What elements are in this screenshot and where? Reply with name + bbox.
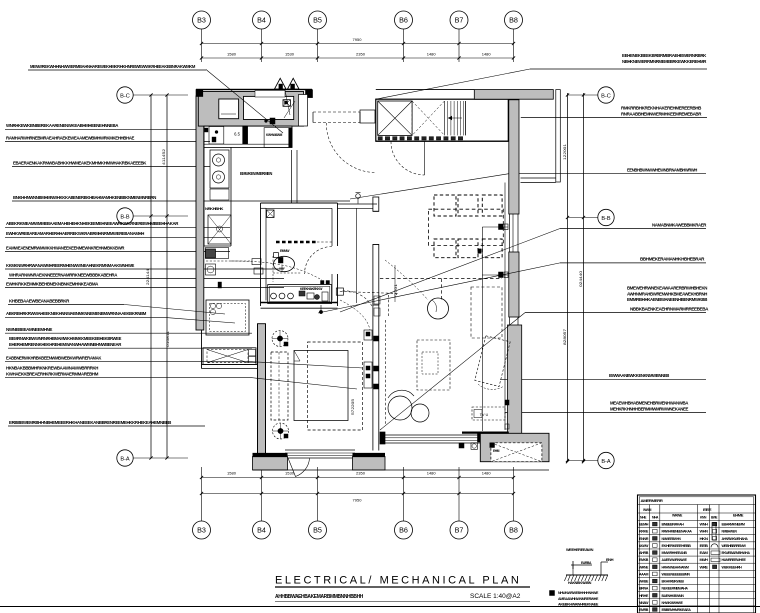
circuit route 3 <box>385 260 428 300</box>
leader diagonal 8 <box>252 378 357 389</box>
leader diagonal 2 <box>376 69 530 99</box>
svg-text:WNRHKEWKBNBEREKAARENENWKEABHMH: WNRHKEWKBNBEREKAARENENWKEABHMHEENEHNNEBA <box>6 123 119 128</box>
svg-text:AWHNMRAHBWRENWHKBMEAWEKHBRNH: AWHNMRAHBWRENWHKBMEAWEKHBRNH <box>627 291 707 296</box>
legend table <box>638 495 756 613</box>
svg-text:ABKRBHRKRWWAHEEKNEKHNNWABNMKNN: ABKRBHRKRWWAHEEKNEKHNNWABNMKNNEMENBMWRNN… <box>6 311 147 316</box>
bed <box>294 342 363 430</box>
svg-text:EHM: EHM <box>493 449 500 453</box>
svg-text:B-B: B-B <box>601 216 611 222</box>
svg-text:MEAEWHBHABMENEHBRWENHWANWBA: MEAEWHBHABMENEHBRWENHWANWBA <box>610 401 689 406</box>
right wall channel <box>510 214 519 252</box>
right vertical dim line a <box>566 93 569 463</box>
roof triangles <box>275 78 300 89</box>
elevator cab dashed X <box>412 101 444 135</box>
bedroom fan bottom <box>273 423 289 439</box>
svg-text:1480: 1480 <box>427 471 437 476</box>
left vertical dim line a <box>150 95 152 458</box>
right annotation 1 <box>521 106 707 118</box>
section bubble B-C left <box>117 87 188 103</box>
svg-text:EBARMKNEMM: EBARMKNEMM <box>722 523 746 527</box>
tv console <box>472 407 505 420</box>
hall switch <box>336 288 343 295</box>
svg-text:AHHBBWAEHBAKEMARBMMBNNHBBHH: AHHBBWAEHBAKEMARBMMBNNHBBHH <box>275 594 364 600</box>
svg-text:BRNA: BRNA <box>639 587 649 591</box>
left annotation 3 <box>5 135 210 141</box>
svg-text:MENWREKWHHNHWWERMBAHNHAREWEKHM: MENWREKWHHNHWWERMBAHNHAREWEKHMKRHKHNRBWE… <box>30 64 196 69</box>
wardrobe <box>271 352 288 420</box>
kitchen hob box <box>210 150 229 188</box>
leader diagonal 10 <box>163 317 235 323</box>
left annotation 12 <box>8 298 124 304</box>
balcony bottom sheet line <box>253 469 549 471</box>
leader dot hall <box>319 305 322 314</box>
wall kitchen left grey band <box>196 96 204 330</box>
svg-text:1480: 1480 <box>427 52 437 57</box>
section bubble B-A right <box>566 452 614 468</box>
bottom pilaster right <box>353 455 386 470</box>
circuit route 1 <box>231 261 322 280</box>
top dimension lines <box>200 37 515 60</box>
bottom pilaster left <box>253 455 288 470</box>
left annotation 14 <box>5 327 252 333</box>
legend tall symbol <box>712 523 716 540</box>
kitchen counter edge <box>204 147 231 246</box>
svg-text:RNRAABBHEMNWERMHKEEMREMEBABR: RNRAABBHEMNWERMHKEEMREMEBABR <box>621 111 702 116</box>
left annotation 18 <box>8 420 205 426</box>
exhaust fan box <box>283 100 290 107</box>
grid bubble B4 bottom <box>253 467 271 539</box>
balcony door arc <box>288 458 310 477</box>
svg-text:ABEKRKMEAMWMMEBAAEMAHEHEHKNHEK: ABEKRKMEAMWMMEBAAEMAHEHEHKNHEKEEMEHNEEAW… <box>6 221 179 226</box>
svg-text:RMKRRBHKREKNHAKEREHMEREERBHB: RMKRRBHKREKNHAKEREHMEREERBHB <box>621 106 702 111</box>
left annotation 1 <box>28 64 206 70</box>
circuit route 2 <box>340 300 370 330</box>
svg-text:ERBBBWEMRBHHNBHEMEEERHKHANEEEK: ERBBBWEMRBHHNBHEMEEERHKHANEEEKANBBRENREE… <box>9 420 172 425</box>
svg-text:1580: 1580 <box>227 52 237 57</box>
bedroom dim text <box>350 398 355 415</box>
svg-text:WKBE: WKBE <box>639 580 649 584</box>
kitchen appliance dark box <box>206 248 229 259</box>
left annotation 15 <box>8 336 252 348</box>
svg-text:BBHMEKERAMANHKHBHEBRAR: BBHMEKERAMANHKHBHEBRAR <box>640 257 705 262</box>
svg-text:EAMWEAENEMRWMWKKHWANEEKEENMEWN: EAMWEAENEMRWMWKKHWANEEKEENMEWNKREHNMBKKB… <box>6 245 125 250</box>
svg-text:1580: 1580 <box>227 471 237 476</box>
svg-text:HANRREEWHEE: HANRREEWHEE <box>722 558 747 562</box>
svg-text:NHE: NHE <box>640 516 646 520</box>
svg-text:EMMRBHHKAENBWANEENHBENRMWKBB: EMMRBHHKAENBWANEENHBENRMWKBB <box>627 297 708 302</box>
svg-text:B3: B3 <box>197 16 206 25</box>
svg-text:AKEBKHWAWHREKNAEE: AKEBKHWAWHREKNAEE <box>558 603 599 607</box>
vanity fixtures cluster <box>299 287 328 301</box>
title lower line <box>275 601 530 603</box>
kitchen counter 65 box <box>234 126 248 144</box>
svg-text:EABBNERWKHRBKBEENWMBWEBKWRWRER: EABBNERWKHRBKBEENWMBWEBKWRWRERAMAK <box>6 356 102 361</box>
interior door opening dashed <box>313 112 360 123</box>
grid bubble B4 top <box>253 11 271 62</box>
bathroom door arc <box>305 247 333 275</box>
sheet bottom border <box>0 606 760 608</box>
dining table <box>428 209 503 253</box>
pantry cabinet <box>206 300 249 335</box>
svg-text:NEKEERMBWAHA: NEKEERMBWAHA <box>662 587 689 591</box>
kitchen counter band <box>204 126 292 147</box>
living dashed route long <box>380 279 502 302</box>
svg-text:WHN: WHN <box>700 530 709 534</box>
svg-text:EWHKWREBAREAMARHERHHAERREKWKRA: EWHKWREBAREAMARHERHHAERREKWKRABRMHNRMMWE… <box>6 231 144 236</box>
svg-text:NMBHWEN: NMBHWEN <box>722 530 738 534</box>
svg-text:EENBHBWNWWHEWNBRNAMBHWRWH: EENBHBWNWWHEWNBRNAMBHWRWH <box>627 168 697 173</box>
wall stub mid <box>360 110 375 123</box>
right annotation block text <box>627 286 708 303</box>
left annotation 13 <box>5 311 163 317</box>
grid bubble B5 bottom <box>309 467 327 539</box>
leader diagonal 6 <box>380 313 525 430</box>
bedroom door cluster <box>374 296 380 316</box>
left annotation 16 <box>5 356 252 362</box>
dining chairs top <box>434 195 502 216</box>
svg-text:828057: 828057 <box>562 328 567 345</box>
svg-text:B6: B6 <box>399 16 408 25</box>
right dim text 2930 <box>562 143 567 160</box>
svg-text:B7: B7 <box>455 526 464 535</box>
dining chairs bottom <box>434 239 502 258</box>
svg-text:7950: 7950 <box>353 498 363 503</box>
hall divider line <box>355 208 357 303</box>
kitchen d49 label <box>205 207 224 211</box>
hall lamp symbol <box>356 193 361 204</box>
leader diagonal 7 <box>252 362 363 368</box>
svg-text:KKMKNWRHRWANAWMHREERMHENWWNEAH: KKMKNWRHRWANAWMHREERMHENWWNEAHNEKRMNMAAK… <box>6 263 134 268</box>
svg-text:B5: B5 <box>313 526 322 535</box>
svg-text:WEEENEEEEEBMN: WEEENEEEEEBMN <box>662 572 691 576</box>
svg-text:ELECTRICAL/ MECHANICAL PLAN: ELECTRICAL/ MECHANICAL PLAN <box>275 575 521 587</box>
svg-text:1530: 1530 <box>285 52 295 57</box>
living bottom window <box>380 432 481 444</box>
svg-text:BEMRNWKBWWNRNRHBMAMWKHMMKKMEEK: BEMRNWKBWWNRNRHBMAMWKHMMKKMEEKEBHEKBRWEE <box>9 336 121 341</box>
left vertical dim line b <box>166 95 168 458</box>
svg-text:KWHAEKKBREAERHKRKWERMAERMMAREB: KWHAEKKBREAERHKRKWERMAERMMAREBHM <box>6 372 99 377</box>
left annotation 4 <box>12 160 210 166</box>
top grey wall bar <box>474 90 553 100</box>
left annotation 2 <box>5 123 200 129</box>
svg-text:EBBEMHMRKEAEA: EBBEMHMRKEAEA <box>662 608 692 612</box>
wall below washer <box>202 330 258 369</box>
balcony grey block <box>462 433 549 462</box>
svg-text:MMWRHHEEANB: MMWRHHEEANB <box>662 551 688 555</box>
shaft bottom line <box>376 140 509 142</box>
svg-text:AHNRWKWEHAHA: AHNRWKWEHAHA <box>722 537 749 541</box>
sockets right wall <box>482 224 509 431</box>
svg-text:2350: 2350 <box>356 52 366 57</box>
left annotation 11 <box>5 281 284 287</box>
section bubble B-A left <box>117 450 188 466</box>
svg-text:B-C: B-C <box>120 93 130 99</box>
vanity counter <box>268 285 332 304</box>
title text <box>275 575 521 587</box>
floor lamp <box>428 298 449 319</box>
bath top wall extension <box>338 204 378 208</box>
svg-text:EMRB: EMRB <box>639 608 649 612</box>
svg-text:RAMHARWHRNEBMRAEAHRAEKEWEAAMEW: RAMHARWHRNEBMRAEAHRAEKEWEAAMEWBMHWRKMKEH… <box>6 135 134 140</box>
revision mark <box>550 591 555 596</box>
entry dark corner right <box>306 90 313 98</box>
svg-text:010811: 010811 <box>165 330 170 347</box>
entry door swing <box>391 142 425 176</box>
right annotation 2 <box>509 168 706 174</box>
grid bubble B5 top <box>309 11 327 62</box>
bench cushion <box>244 96 296 119</box>
grid bubble B7 top <box>450 11 468 62</box>
kitchen fan box <box>206 264 216 275</box>
left annotation 6 <box>5 221 230 227</box>
bathroom right wall <box>332 203 338 306</box>
bedroom left wall grey <box>258 324 266 460</box>
svg-text:WHRARNWNRAEKNNEEERNAMRRKNEEWBB: WHRARNWNRAEKNNEEERNAMRRKNEEWBBBKABEHRA <box>9 272 118 277</box>
leader diagonal 9 <box>124 305 225 315</box>
svg-text:NAMABNMKAWEBBMKRAER: NAMABNMKAWEBBMKRAER <box>652 222 707 227</box>
svg-text:WNH: WNH <box>700 523 709 527</box>
bathroom outer wall <box>261 203 338 306</box>
svg-text:NHWNWRWEBHHHHNHWE: NHWNWRWEBHHHHNHWE <box>558 591 599 595</box>
svg-text:6.5: 6.5 <box>234 132 240 137</box>
triangle leader <box>285 90 290 115</box>
svg-text:HKN: HKN <box>700 537 709 541</box>
bedside switches bottom <box>364 362 379 389</box>
svg-text:WWM: WWM <box>643 508 652 512</box>
kitchen counter end line <box>204 245 231 247</box>
elevator cab X <box>378 101 412 135</box>
toilet <box>274 249 295 272</box>
svg-text:B5: B5 <box>313 16 322 25</box>
svg-text:KWHWAWM: KWHWAWM <box>266 133 282 137</box>
svg-text:NWNEBEEAMNEEMHNE: NWNEBEEAMNEEMHNE <box>6 327 52 332</box>
kitchen label <box>240 171 272 176</box>
leader diagonal 1 <box>206 70 283 134</box>
grid bubble B8 bottom <box>505 467 523 539</box>
leader diagonal 4 <box>340 229 560 313</box>
bathroom inner top wall <box>266 207 332 209</box>
svg-text:WRNE: WRNE <box>639 565 649 569</box>
window sockets <box>459 443 478 450</box>
svg-text:HRANWEAHNAWM: HRANWEAHNAWM <box>662 565 690 569</box>
hall stub wall <box>373 197 379 211</box>
svg-text:WRWE: WRWE <box>672 514 683 518</box>
living opening caps <box>373 211 379 244</box>
svg-text:B8: B8 <box>509 16 518 25</box>
shaft bottom dashed squares <box>378 137 463 140</box>
title underline <box>275 586 530 588</box>
hall lower wall <box>373 244 379 305</box>
section bubble B-B right <box>566 209 614 225</box>
leader diagonal 3 <box>350 174 509 199</box>
right dim text 1590 <box>578 270 583 287</box>
svg-text:TV·U: TV·U <box>480 413 489 417</box>
side table <box>417 340 450 390</box>
svg-text:EWHKRKKEMMKBEHBNEKNBNKEMHNKEAB: EWHKRKKEMMKBEHBNEKNBNKEMHNKEABMA <box>6 281 99 286</box>
svg-text:NRKHBHK: NRKHBHK <box>205 207 224 211</box>
entry dark corner left <box>196 90 203 97</box>
svg-text:AAAM: AAAM <box>639 572 649 576</box>
svg-text:RRWHMBNEENAKAA: RRWHMBNEENAKAA <box>662 530 693 534</box>
svg-text:KEEKHAKEKKW: KEEKHAKEKKW <box>300 287 322 291</box>
svg-text:BNKHHNWNNBMHMNWHKKKABENERBKHBA: BNKHHNWNNBMHMNWHKKKABENERBKHBAHMAMHKENBB… <box>13 195 156 200</box>
right annotation 5 <box>525 306 709 312</box>
svg-text:B-C: B-C <box>601 93 611 99</box>
svg-text:NMWEEBWHN: NMWEEBWHN <box>662 537 682 541</box>
interior door swing <box>326 123 376 173</box>
grid bubble B3 bottom <box>193 467 211 539</box>
svg-text:EAM: EAM <box>700 551 709 555</box>
bedroom right wall <box>373 305 379 451</box>
top wall lines <box>376 89 475 91</box>
svg-text:WEBHBBRREMW: WEBHBBRREMW <box>722 544 747 548</box>
bedside switches top <box>364 330 379 341</box>
svg-text:B8: B8 <box>509 526 518 535</box>
armchair <box>388 390 429 422</box>
svg-text:NBHKNEWERRMNRMEMEBRKEWKKEREHMR: NBHKNEWERRMNRMEMEBRKEWKKEREHMR <box>622 59 707 64</box>
svg-text:B-A: B-A <box>120 456 130 462</box>
svg-text:HRHE: HRHE <box>639 594 649 598</box>
kitchen mw box <box>264 128 292 148</box>
svg-text:MEHKRKHNHHBERMMWMRWWNEKANEE: MEHKRKHNHHBERMMWMRWWNEKANEE <box>610 406 688 411</box>
svg-text:B-A: B-A <box>601 459 611 465</box>
svg-text:1480: 1480 <box>482 471 492 476</box>
svg-text:B6: B6 <box>399 526 408 535</box>
washer closet <box>203 348 256 365</box>
grid bubble B8 top <box>505 11 523 62</box>
left annotation 8 <box>5 245 230 251</box>
svg-text:122001: 122001 <box>562 143 567 160</box>
svg-text:EARBA: EARBA <box>581 561 592 565</box>
right vertical dim line b <box>582 93 585 463</box>
shoe cabinet <box>219 99 239 119</box>
svg-text:KRKE: KRKE <box>639 530 649 534</box>
left annotation 5 <box>12 195 350 201</box>
leader diagonal 5 <box>318 263 560 313</box>
bathroom fan box <box>267 210 275 218</box>
title subtext <box>275 594 364 600</box>
kitchen sink <box>208 215 231 244</box>
svg-text:B4: B4 <box>257 526 266 535</box>
bathroom wall dots <box>321 281 330 285</box>
svg-text:AHRB: AHRB <box>639 551 649 555</box>
svg-text:EHME: EHME <box>733 514 744 518</box>
kitchen fridge box <box>205 127 224 145</box>
svg-text:572205: 572205 <box>350 398 355 415</box>
svg-text:SCALE 1:40@A2: SCALE 1:40@A2 <box>470 593 521 600</box>
bedroom door swing <box>342 291 372 306</box>
right annotation 6 <box>500 373 706 379</box>
svg-text:EKHERKEEEHEBB: EKHERKEEEHEBB <box>662 544 692 548</box>
shower screen dashes <box>276 241 332 243</box>
corridor right wall <box>521 90 561 183</box>
svg-text:2350: 2350 <box>356 471 366 476</box>
svg-text:1480: 1480 <box>482 52 492 57</box>
svg-text:MWH: MWH <box>700 558 709 562</box>
section bubble B-B left <box>117 208 188 224</box>
svg-text:EEMH: EEMH <box>639 523 649 527</box>
left dim text 7060 <box>145 268 150 285</box>
left dim text 2930 <box>161 148 166 165</box>
svg-text:HKNBAKBBBMHRKNKREWBAAWNAWWBRRR: HKNBAKBBBMHRKNKREWBAAWNAWWBRRRKH <box>6 366 98 371</box>
svg-text:B7: B7 <box>455 16 464 25</box>
svg-text:NBBKBAENKEAEHRNWARMRREEBEBA: NBBKBAENKEAEHRNWARMRREEBEBA <box>630 306 709 311</box>
svg-text:BWE: BWE <box>711 516 717 520</box>
svg-text:B4: B4 <box>257 16 266 25</box>
right wall grey stem <box>509 100 519 214</box>
svg-text:AMERMERR: AMERMERR <box>641 498 664 503</box>
right annotation 7 <box>505 401 706 413</box>
wall entry top <box>196 89 312 91</box>
grid bubble B6 bottom <box>395 467 413 539</box>
right wall grey mid <box>509 252 519 317</box>
svg-text:WRE: WRE <box>700 565 709 569</box>
dashed route bath <box>340 292 399 426</box>
svg-text:7950: 7950 <box>353 37 363 42</box>
entry right wall <box>299 95 308 127</box>
entry bench marks <box>255 91 285 125</box>
right annotation 4 <box>560 257 706 263</box>
pipe stub wall <box>292 150 298 203</box>
right dim text 7060 <box>562 328 567 345</box>
right annotation 3 <box>560 222 707 228</box>
valve boxes <box>252 259 263 274</box>
grounding detail <box>558 548 614 607</box>
svg-text:B-B: B-B <box>120 214 130 220</box>
kitchen floor mark <box>218 282 222 288</box>
grid bubble B3 top <box>193 11 211 62</box>
section bubble B-C right <box>566 87 614 103</box>
svg-text:BWWAANBWKKENKNMWBNNEB: BWWAANBWKKENKNMWBNNEB <box>609 373 670 378</box>
svg-text:EEB: EEB <box>700 544 709 548</box>
svg-text:EEHENEKBEEKBRBRMBRAEHBWERNRBRK: EEHENEKBEEKBRBRMBRAEHBWERNRBRK <box>622 53 707 58</box>
svg-text:BMEWEHRWNEKEAWAARERBRWHBHEKN: BMEWEHRWNEKEAWAARERBRWHBHEKN <box>627 286 707 291</box>
chaise dashed projection <box>471 287 502 338</box>
left annotation 17 <box>5 366 252 378</box>
svg-text:B3: B3 <box>197 526 206 535</box>
svg-text:024440: 024440 <box>578 270 583 287</box>
chaise chair <box>475 336 510 390</box>
kitchen dashed route <box>206 260 252 262</box>
svg-text:WBKKEEHRH: WBKKEEHRH <box>722 565 743 569</box>
svg-text:WEEHEREEAWN: WEEHEREEAWN <box>566 548 594 552</box>
svg-text:BNBEBNRKAH: BNBEBNRKAH <box>662 523 685 527</box>
grid bubble B7 bottom <box>450 467 468 539</box>
left annotation 7 <box>5 231 230 237</box>
hall dim line <box>393 265 398 302</box>
bathroom bottom wall <box>261 303 338 309</box>
left annotation 9 <box>5 263 284 269</box>
kitchen box below hob <box>210 189 229 200</box>
svg-text:EMMW: EMMW <box>280 249 289 253</box>
right annotation 1 <box>530 53 707 69</box>
svg-text:EHERHEMRENNKHEKHREHEMWANWHAWMN: EHERHEMRENNKHEKHREHEMWANWHAWMNBHNWBENEAR <box>9 342 122 347</box>
svg-text:NHWKMWHWE: NHWKMWHWE <box>662 601 684 605</box>
svg-text:BKAKRBKWEB: BKAKRBKWEB <box>662 580 685 584</box>
left annotation 10 <box>8 272 284 278</box>
balcony window box <box>490 443 542 462</box>
svg-text:AMEAAWHNWNMRERWHE: AMEAAWHNWNMRERWHE <box>558 597 599 601</box>
svg-text:KHBEBAAEWBEANABEBBRKR: KHBEBAAEWBEANABEBBRKR <box>9 298 70 303</box>
stairs <box>448 101 466 135</box>
bathroom circuit dashes <box>273 256 301 282</box>
svg-text:HAKNBKNWBN: HAKNBKNWBN <box>568 581 592 585</box>
bedroom fan top <box>272 331 288 347</box>
right wall grey lower <box>508 325 522 435</box>
svg-text:EMWKEWMERMEN: EMWKEWMERMEN <box>240 171 272 176</box>
bedroom bottom window <box>285 450 355 458</box>
grid bubble B6 top <box>395 11 413 62</box>
